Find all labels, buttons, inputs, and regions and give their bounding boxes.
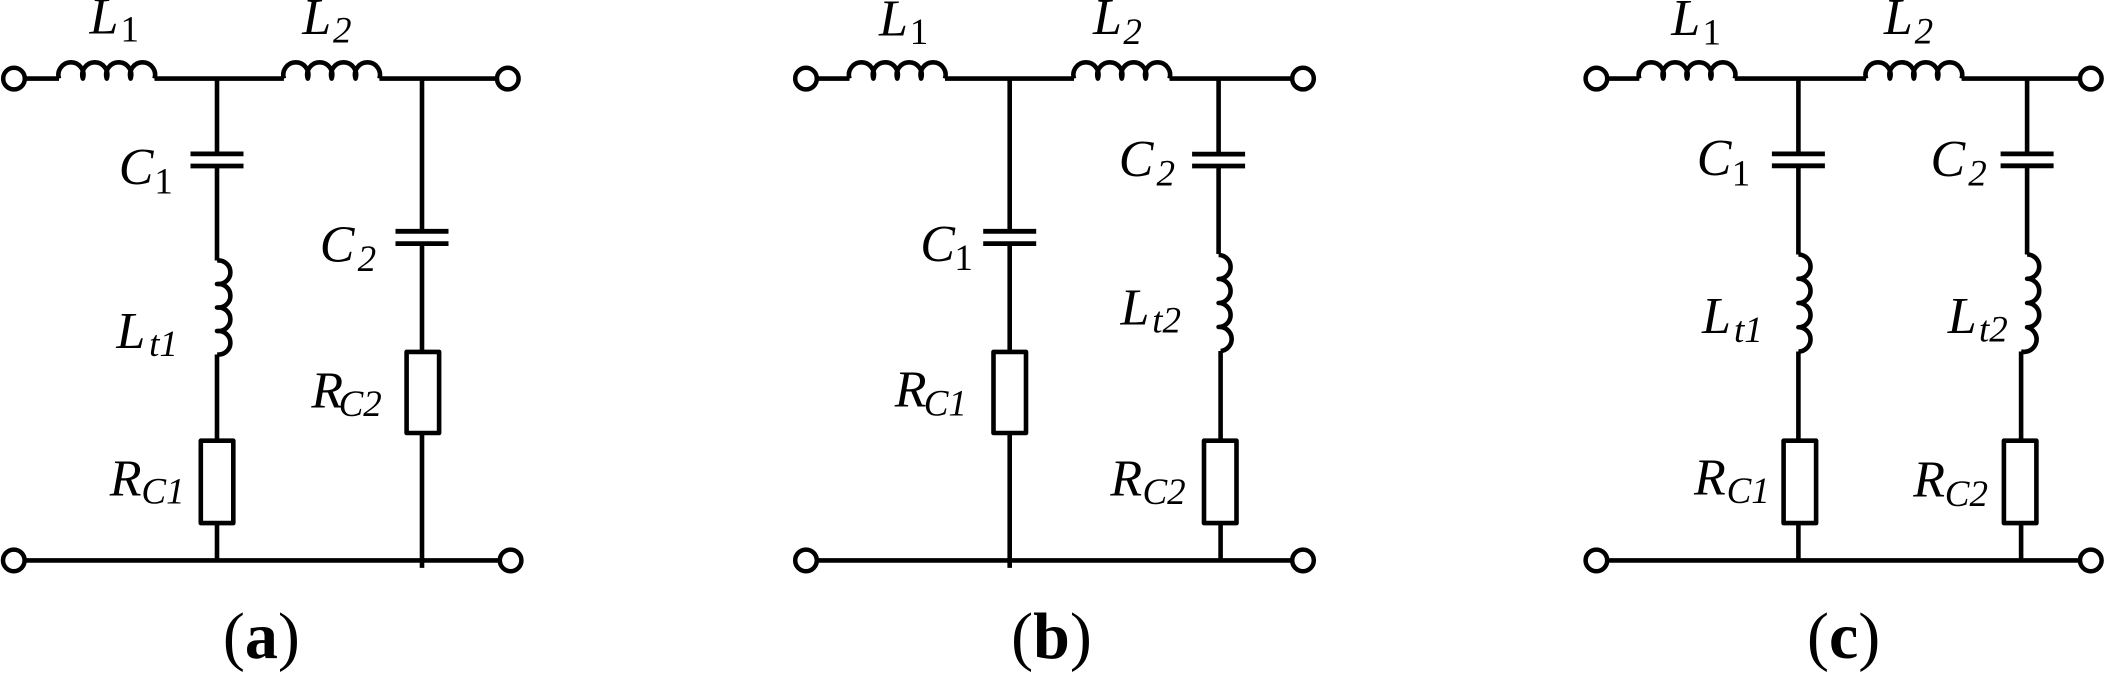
inductor L1 (c) xyxy=(1639,62,1736,78)
terminal port-b top-left xyxy=(795,68,817,90)
resistor RC2 (a) xyxy=(407,352,440,433)
wire b RC2 to bottom xyxy=(1218,523,1223,560)
svg-text:1: 1 xyxy=(154,162,173,203)
svg-text:L: L xyxy=(301,0,331,46)
svg-text:t2: t2 xyxy=(1152,301,1181,342)
wire b bottom rail xyxy=(817,558,1292,563)
svg-text:L: L xyxy=(1670,0,1700,47)
wire a RC1 to bottom xyxy=(215,523,220,560)
svg-text:t1: t1 xyxy=(1734,310,1763,351)
wire a Lt1 to RC1 xyxy=(215,355,220,441)
wire a node1 down to C1 xyxy=(215,79,220,154)
svg-text:L: L xyxy=(1092,0,1122,46)
capacitor C2 (c) xyxy=(2001,154,2054,166)
svg-text:C: C xyxy=(1119,131,1155,188)
svg-text:2: 2 xyxy=(1915,12,1934,53)
svg-text:C: C xyxy=(920,216,956,273)
svg-text:C: C xyxy=(119,139,155,196)
wire a RC2 to bottom xyxy=(420,433,425,568)
wire b RC1 to bottom xyxy=(1007,433,1012,568)
wire c top-left xyxy=(1607,76,1639,81)
terminal port-a bottom-right xyxy=(500,550,522,572)
wire b C1 to RC1 xyxy=(1007,244,1012,352)
svg-text:1: 1 xyxy=(1703,13,1722,54)
inductor L2 (b) xyxy=(1073,62,1170,78)
wire b top-right xyxy=(1170,76,1293,81)
wire a C1 to Lt1 xyxy=(215,166,220,261)
wire a bottom rail xyxy=(25,558,500,563)
svg-text:2: 2 xyxy=(1157,153,1176,194)
svg-text:R: R xyxy=(109,450,142,507)
capacitor C1 (a) xyxy=(191,154,244,166)
terminal port-c top-right xyxy=(2080,68,2102,90)
svg-text:C2: C2 xyxy=(339,384,382,425)
terminal port-a top-right xyxy=(497,68,519,90)
terminal port-c bottom-right xyxy=(2080,550,2102,572)
capacitor C2 (a) xyxy=(396,231,449,243)
svg-text:1: 1 xyxy=(121,10,140,51)
svg-text:C: C xyxy=(1931,131,1967,188)
resistor RC1 (c) xyxy=(1784,441,1817,523)
wire c L1 to L2 xyxy=(1735,76,1866,81)
resistor RC2 (b) xyxy=(1204,441,1237,523)
wire b top-left xyxy=(817,76,850,81)
svg-text:t2: t2 xyxy=(1979,309,2008,350)
wire c top-right xyxy=(1962,76,2080,81)
svg-text:(a): (a) xyxy=(223,600,300,673)
svg-text:2: 2 xyxy=(1968,153,1987,194)
svg-text:L: L xyxy=(1883,0,1913,46)
wire c RC1 to bottom xyxy=(1796,523,1801,560)
svg-text:(c): (c) xyxy=(1807,600,1880,673)
terminal port-c top-left xyxy=(1586,68,1608,90)
inductor Lt1 (a) xyxy=(217,260,230,354)
wire b node2 down to C2 xyxy=(1216,79,1221,155)
svg-text:C1: C1 xyxy=(924,383,967,424)
wire c RC2 to bottom xyxy=(2019,523,2024,560)
wire b Lt2 to RC2 xyxy=(1218,351,1223,441)
inductor Lt2 (c) xyxy=(2021,255,2039,352)
wire b C2 to Lt2 xyxy=(1216,166,1221,254)
wire a C2 to RC2 xyxy=(420,244,425,352)
resistor RC1 (a) xyxy=(201,441,234,523)
wire c bottom rail xyxy=(1607,558,2079,563)
capacitor C1 (c) xyxy=(1772,154,1825,166)
svg-text:t1: t1 xyxy=(149,324,178,365)
wire c Lt2 to RC2 xyxy=(2019,352,2024,441)
capacitor C2 (b) xyxy=(1192,154,1245,166)
svg-text:C1: C1 xyxy=(1727,471,1770,512)
terminal port-b bottom-left xyxy=(795,550,817,572)
svg-text:L: L xyxy=(115,303,145,360)
svg-text:1: 1 xyxy=(910,12,929,53)
wire a top-left xyxy=(25,76,59,81)
inductor L1 (a) xyxy=(58,62,155,78)
wire a L1 to L2 xyxy=(155,76,284,81)
svg-text:C1: C1 xyxy=(141,472,184,513)
svg-text:L: L xyxy=(878,0,908,48)
wire b node1 down to C1 xyxy=(1007,79,1012,232)
wire c C1 to Lt1 xyxy=(1796,166,1801,255)
svg-text:C2: C2 xyxy=(1945,474,1988,515)
svg-text:R: R xyxy=(1693,449,1726,506)
wire c node1 down to C1 xyxy=(1796,79,1801,154)
svg-text:2: 2 xyxy=(1123,12,1142,53)
wire b L1 to L2 xyxy=(945,76,1074,81)
svg-text:1: 1 xyxy=(1732,153,1751,194)
inductor L2 (c) xyxy=(1866,62,1963,78)
terminal port-b bottom-right xyxy=(1292,550,1314,572)
svg-text:2: 2 xyxy=(358,239,377,280)
svg-text:L: L xyxy=(1120,279,1150,336)
resistor RC2 (c) xyxy=(2004,441,2037,523)
svg-text:C: C xyxy=(1697,130,1733,187)
inductor L1 (b) xyxy=(849,62,946,78)
svg-text:C: C xyxy=(320,217,356,274)
capacitor C1 (b) xyxy=(983,231,1036,243)
terminal port-b top-right xyxy=(1292,68,1314,90)
wire c Lt1 to RC1 xyxy=(1796,352,1801,441)
svg-text:R: R xyxy=(1912,452,1945,509)
inductor Lt1 (c) xyxy=(1798,255,1810,352)
terminal port-c bottom-left xyxy=(1586,550,1608,572)
svg-text:L: L xyxy=(1701,288,1731,345)
svg-text:L: L xyxy=(1947,288,1977,345)
terminal port-a top-left xyxy=(3,68,25,90)
wire c C2 to Lt2 xyxy=(2025,166,2030,255)
terminal port-a bottom-left xyxy=(3,550,25,572)
wire c node2 down to C2 xyxy=(2025,79,2030,154)
wire a node2 down to C2 xyxy=(420,79,425,232)
svg-text:1: 1 xyxy=(954,238,973,279)
svg-text:R: R xyxy=(894,362,927,419)
inductor Lt2 (b) xyxy=(1219,255,1232,351)
svg-text:C2: C2 xyxy=(1143,472,1186,513)
inductor L2 (a) xyxy=(283,62,380,78)
resistor RC1 (b) xyxy=(994,352,1027,433)
svg-text:2: 2 xyxy=(333,10,352,51)
wire a top-right xyxy=(379,76,496,81)
svg-text:(b): (b) xyxy=(1011,600,1092,673)
svg-text:L: L xyxy=(89,0,119,46)
svg-text:R: R xyxy=(1109,450,1142,507)
